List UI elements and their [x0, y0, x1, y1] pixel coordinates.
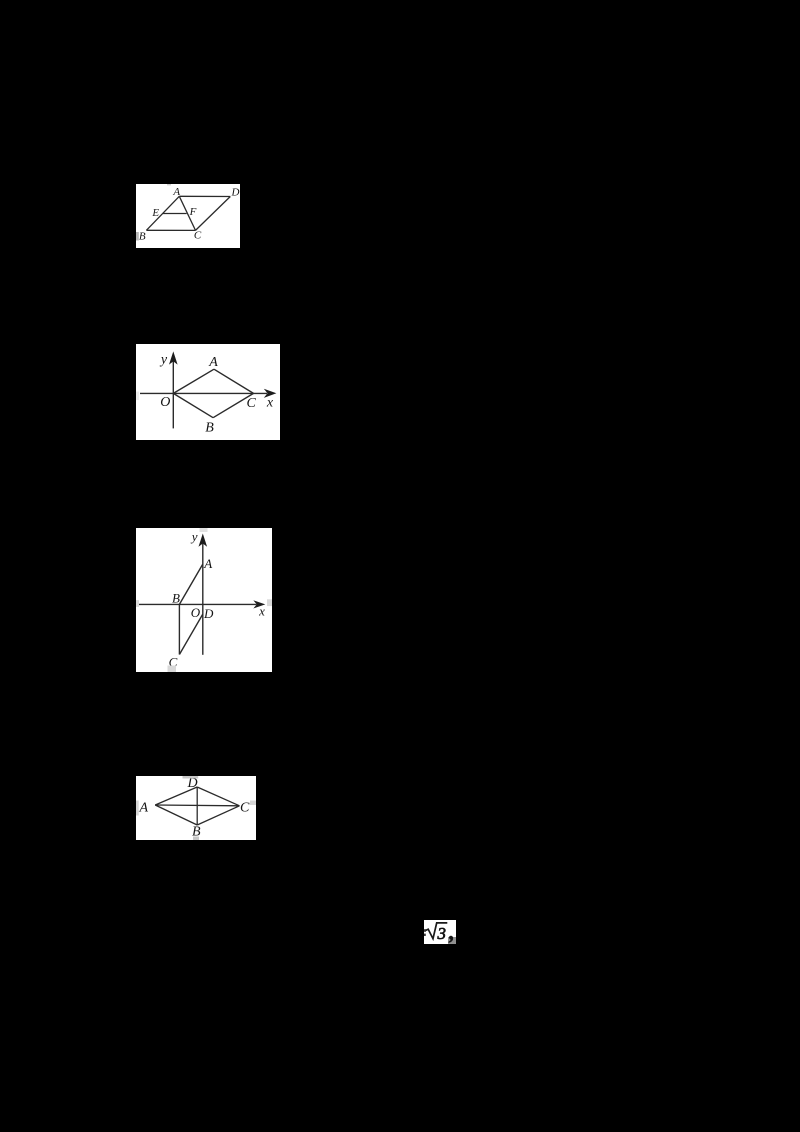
grey tick left edge on x-axis [136, 600, 139, 607]
svg-text:C: C [247, 396, 257, 411]
radical sign [426, 923, 448, 939]
clipped equals/colon mark at left edge [424, 929, 426, 932]
svg-text:E: E [151, 207, 159, 219]
side BC [178, 604, 180, 654]
figure 1: parallelogram ABCD with midsegment EF [136, 184, 240, 248]
svg-text:x: x [266, 395, 274, 410]
svg-text:F: F [189, 206, 197, 218]
svg-text:D: D [203, 606, 214, 621]
midsegment EF [163, 213, 187, 215]
grey scan mark top edge above D [183, 776, 199, 779]
rhombus side BO [173, 393, 213, 417]
svg-text:B: B [172, 591, 180, 606]
side BA [179, 564, 202, 604]
side CB [146, 229, 195, 231]
grey tick left edge near A [136, 801, 139, 816]
rhombus side AC [214, 369, 254, 393]
svg-text:B: B [139, 231, 146, 243]
svg-text:O: O [160, 395, 170, 410]
grey scan mark top edge above A [167, 184, 171, 185]
side AD [155, 787, 197, 805]
side DC [196, 197, 231, 231]
grey scan mark bottom edge below B [193, 837, 199, 841]
figure 3: parallelogram ABCD on coordinate axes [136, 528, 272, 672]
svg-text:A: A [139, 801, 149, 816]
side BA [146, 196, 179, 230]
y-axis [202, 542, 204, 655]
grey corner behind comma [448, 937, 456, 944]
svg-text:D: D [231, 187, 240, 199]
side BA [155, 805, 197, 825]
faint grey tick left edge on x-axis [136, 392, 139, 401]
svg-text:y: y [159, 353, 168, 368]
svg-text:A: A [172, 186, 180, 198]
side DC [197, 787, 239, 806]
grey scan tick left edge near B [136, 232, 139, 241]
sqrt(3) inline formula patch [424, 920, 456, 944]
svg-text:B: B [205, 420, 214, 435]
svg-text:O: O [191, 605, 201, 620]
grey scan mark top edge by y-axis [200, 528, 208, 532]
side CB [197, 806, 239, 825]
grey scan mark bottom edge below C [168, 666, 177, 673]
y-axis arrowhead [199, 534, 208, 547]
y-axis arrowhead [169, 351, 178, 364]
svg-text:x: x [258, 603, 265, 618]
diagonal AC [179, 196, 195, 230]
figure 4: rhombus ABCD with diagonals [136, 776, 256, 840]
x-axis arrowhead [264, 389, 277, 398]
x-axis arrowhead [253, 600, 265, 608]
svg-text:y: y [190, 529, 198, 544]
svg-text:3: 3 [437, 924, 447, 943]
y-axis [172, 360, 174, 428]
rhombus side OA [173, 369, 214, 393]
grey tick right edge on x-axis [267, 599, 272, 606]
svg-text:A: A [203, 556, 212, 571]
side CD [179, 614, 202, 654]
x-axis [140, 392, 267, 394]
svg-text:C: C [194, 230, 202, 242]
diagonal AC [155, 804, 239, 807]
figure 2: rhombus OACB on coordinate axes [136, 344, 280, 440]
svg-text:C: C [240, 801, 250, 816]
rhombus side CB [213, 393, 253, 417]
svg-text:A: A [208, 355, 218, 370]
grey tick right edge near C [250, 801, 256, 806]
side AD [179, 195, 230, 197]
diagonal DB [196, 787, 198, 825]
x-axis [139, 603, 257, 605]
svg-text:,: , [448, 920, 455, 944]
